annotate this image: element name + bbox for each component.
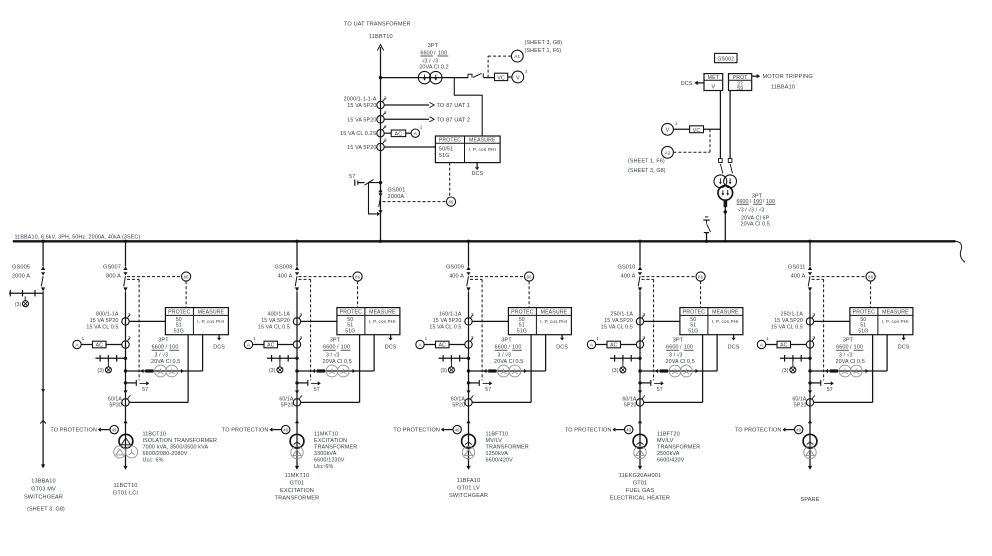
svg-text:11BBT10: 11BBT10 — [369, 34, 393, 40]
svg-text:PROTEC: PROTEC — [439, 138, 461, 144]
wire PROTEC lead to CT60 — [872, 335, 874, 403]
svg-text:V: V — [516, 75, 520, 81]
svg-text:DCS: DCS — [898, 345, 910, 351]
svg-text:FUEL GAS: FUEL GAS — [626, 488, 655, 494]
svg-text:3 / √3: 3 / √3 — [839, 352, 853, 359]
svg-text:20VA Cl 0,5: 20VA Cl 0,5 — [151, 359, 180, 365]
svg-text:3PT: 3PT — [843, 338, 854, 344]
transformer primary winding — [290, 434, 304, 448]
wire CT60 to PROTEC lead — [301, 401, 360, 403]
label 3PT GS002 — [737, 194, 776, 228]
wire AC to ammeter — [406, 132, 411, 134]
wire dashed 86 to PROTEC — [700, 281, 702, 307]
label 3PT values — [494, 338, 523, 365]
svg-text:GS007: GS007 — [103, 264, 121, 270]
disconnector GS007 — [123, 266, 127, 270]
svg-text:3: 3 — [299, 335, 302, 340]
svg-text:EXCITATION: EXCITATION — [314, 438, 347, 444]
svg-text:3: 3 — [471, 335, 474, 340]
svg-text:VC: VC — [497, 76, 505, 82]
svg-text:GS011: GS011 — [788, 264, 806, 270]
busbar 11BBA10 6.6kV — [13, 240, 956, 242]
wire MEASURE lead to VT — [373, 335, 375, 371]
svg-text:15 VA CL 0.5: 15 VA CL 0.5 — [429, 325, 461, 331]
current transformer 60/1A — [465, 399, 472, 406]
transducer AC box — [436, 341, 450, 348]
svg-text:6600/2080-2080V: 6600/2080-2080V — [143, 451, 188, 457]
switch contact on VT branch — [468, 73, 495, 77]
svg-text:SWITCHGEAR: SWITCHGEAR — [449, 493, 488, 499]
svg-text:15 VA 5P20: 15 VA 5P20 — [774, 318, 803, 324]
transducer AC box — [777, 341, 791, 348]
wire GS007 drop — [125, 241, 127, 266]
fuse VT — [146, 370, 153, 372]
svg-text:1: 1 — [675, 120, 678, 126]
transformer secondary winding — [804, 446, 816, 458]
wire arrow TO 87 UAT 2 — [384, 117, 470, 124]
lamp symbol 3-phase — [441, 367, 455, 374]
wire main conductor — [809, 291, 811, 466]
relay 49 thermal — [453, 425, 461, 433]
wire A to AC — [81, 344, 92, 346]
transformer secondary winding — [291, 446, 303, 458]
wire MET lead down — [719, 91, 721, 159]
svg-text:6600: 6600 — [152, 345, 164, 351]
earthing switch 57 — [297, 380, 321, 393]
fuse GS002 — [724, 201, 727, 207]
relay 86 lockout — [182, 272, 191, 281]
svg-text:3: 3 — [384, 124, 387, 129]
svg-text:TO PROTECTION: TO PROTECTION — [393, 428, 440, 434]
svg-text:TRANSFORMER: TRANSFORMER — [275, 495, 320, 501]
svg-text:TO 87 UAT 2: TO 87 UAT 2 — [437, 117, 471, 123]
wire MEASURE lead to VT — [716, 335, 718, 371]
current transformer TO 87 UAT 1 — [377, 96, 387, 109]
svg-text:I, P, cos PHI: I, P, cos PHI — [468, 147, 496, 153]
wire to protection 49 — [565, 428, 625, 434]
wire dashed interlock branch — [642, 278, 654, 280]
wire motor tripping arrow — [752, 74, 761, 78]
svg-text:20VA Cl 0,5: 20VA Cl 0,5 — [741, 221, 770, 227]
svg-text:20VA Cl 0,5: 20VA Cl 0,5 — [666, 359, 695, 365]
svg-text:VC: VC — [693, 128, 701, 134]
svg-text:15 VA 5P20: 15 VA 5P20 — [347, 103, 376, 109]
wire CT to AC converter — [384, 132, 391, 134]
earthing switch at busbar — [703, 217, 710, 241]
wire CT60 to PROTEC lead — [472, 401, 531, 403]
wire to protection 49 — [735, 428, 795, 434]
wire dashed to relay 86 — [127, 276, 181, 278]
wire A to AC — [253, 344, 264, 346]
svg-text:TO PROTECTION: TO PROTECTION — [50, 428, 97, 434]
svg-text:GS001: GS001 — [388, 187, 406, 193]
wire VT branch — [297, 370, 374, 372]
wire CT to PROTEC — [301, 320, 337, 322]
switch GS002 label box — [715, 53, 737, 62]
disconnector GS008 — [295, 266, 299, 270]
label 3PT values — [323, 338, 352, 365]
svg-text:3: 3 — [128, 335, 131, 340]
svg-text:3PT: 3PT — [428, 43, 439, 49]
svg-text:51G: 51G — [517, 329, 527, 335]
label feeder destination — [113, 483, 139, 497]
label 3PT values — [836, 338, 865, 365]
label feeder destination — [449, 478, 488, 499]
svg-text:GT01: GT01 — [290, 480, 304, 486]
svg-text:3: 3 — [299, 312, 302, 317]
svg-text:15 VA 5P20: 15 VA 5P20 — [90, 318, 119, 324]
wire dashed interlock branch — [127, 278, 139, 280]
wire arrow to switchgear — [41, 464, 45, 468]
svg-text:6600: 6600 — [495, 345, 507, 351]
svg-text:100: 100 — [684, 345, 693, 351]
current transformer protection — [636, 312, 645, 325]
svg-text:I, P, cos PHI: I, P, cos PHI — [197, 319, 224, 324]
wire DCS lead top — [472, 163, 484, 177]
svg-text:400/1-1A: 400/1-1A — [268, 312, 291, 318]
wire main conductor — [296, 291, 298, 466]
svg-text:11BBA10: 11BBA10 — [771, 85, 795, 91]
svg-text:3PT: 3PT — [673, 338, 684, 344]
earthing switch 57 — [126, 380, 150, 393]
svg-text:49: 49 — [112, 428, 117, 433]
svg-text:GS008: GS008 — [274, 264, 292, 270]
relay 49 thermal — [282, 425, 290, 433]
wire DCS lead — [385, 335, 397, 351]
svg-text:MEASURE: MEASURE — [369, 310, 396, 316]
svg-text:3: 3 — [812, 312, 815, 317]
svg-text:51G: 51G — [174, 329, 184, 335]
wire MEASURE lead to VT — [886, 335, 888, 371]
wire DCS lead — [556, 335, 568, 351]
wire CT to PROTEC — [384, 146, 435, 148]
relay PROTEC/MEASURE box — [165, 308, 228, 335]
lamp symbol 3-phase — [269, 367, 283, 374]
svg-text:GS009: GS009 — [446, 264, 464, 270]
earthing switch 57 — [810, 380, 834, 393]
wire dashed to relay 86 — [642, 276, 696, 278]
svg-text:100: 100 — [341, 345, 350, 351]
wire arrow to load — [808, 466, 812, 470]
svg-text:(3): (3) — [269, 368, 276, 374]
meter V voltmeter — [662, 123, 674, 135]
svg-text:1: 1 — [766, 336, 769, 341]
svg-text:(3): (3) — [98, 368, 105, 374]
switch drawout contact lower — [466, 390, 470, 393]
svg-text:GT01 LV: GT01 LV — [457, 486, 480, 492]
label 3PT value — [419, 43, 448, 70]
wire PROT lead down — [729, 91, 731, 159]
svg-text:DCS: DCS — [556, 345, 568, 351]
node junction on feeder — [379, 76, 382, 79]
svg-text:5P20: 5P20 — [624, 403, 637, 409]
svg-text:1: 1 — [420, 125, 423, 130]
svg-text:3PT: 3PT — [330, 338, 341, 344]
svg-text:5P20: 5P20 — [452, 403, 465, 409]
wire DCS lead — [213, 335, 225, 351]
switch drawout contact lower — [123, 390, 127, 393]
svg-text:SPARE: SPARE — [800, 497, 819, 503]
svg-text:51G: 51G — [858, 329, 868, 335]
wire GS005 lower — [42, 291, 44, 465]
transducer AC box — [607, 341, 621, 348]
relay 86 lockout — [525, 272, 534, 281]
svg-text:1: 1 — [82, 336, 85, 341]
svg-text:GT01 LCI: GT01 LCI — [113, 490, 139, 496]
label feeder destination — [610, 473, 670, 502]
disconnector GS010 — [638, 266, 642, 270]
svg-text:57: 57 — [485, 387, 491, 393]
wire VT branch horizontal — [381, 77, 469, 79]
svg-text:86: 86 — [527, 275, 532, 280]
wire dashed 86 to PROTEC — [185, 281, 187, 307]
svg-text:51G: 51G — [345, 329, 355, 335]
svg-text:60/1A: 60/1A — [451, 396, 466, 402]
svg-text:MEASURE: MEASURE — [712, 310, 739, 316]
svg-text:15 VA 5P20: 15 VA 5P20 — [604, 318, 633, 324]
svg-text:PROTEC: PROTEC — [340, 310, 362, 316]
wire DCS lead — [898, 335, 910, 351]
svg-text:PROT: PROT — [733, 75, 749, 81]
node busbar junction GS005 — [41, 240, 44, 243]
wire main conductor — [468, 291, 470, 466]
svg-text:100: 100 — [169, 345, 178, 351]
svg-text:1: 1 — [253, 336, 256, 341]
svg-text:TO PROTECTION: TO PROTECTION — [735, 428, 782, 434]
svg-text:15 VA 5P20: 15 VA 5P20 — [433, 318, 462, 324]
node junctions on conductor — [808, 357, 811, 360]
wire arrowheads VT branch — [141, 369, 144, 373]
svg-text:2000 A: 2000 A — [12, 274, 30, 280]
switch drawout contact — [719, 159, 723, 174]
svg-text:3PT: 3PT — [158, 338, 169, 344]
transformer 3-winding primary — [119, 434, 133, 448]
svg-text:57: 57 — [827, 387, 833, 393]
svg-text:6600/420V: 6600/420V — [657, 458, 685, 464]
wire PROTEC lead to CT60 — [530, 335, 532, 403]
svg-text:51G: 51G — [688, 329, 698, 335]
svg-text:11BFA10: 11BFA10 — [457, 478, 480, 484]
wire arrow to load — [123, 466, 127, 470]
svg-text:PROTEC: PROTEC — [853, 310, 875, 316]
meter V1 voltmeter top — [512, 71, 524, 83]
wire CT to PROTEC — [814, 320, 850, 322]
lamp symbol 3-phase — [98, 367, 112, 374]
current transformer TO 87 UAT 2 — [377, 110, 387, 123]
wire arrow to load — [466, 466, 470, 470]
svg-text:AC: AC — [395, 131, 403, 137]
svg-text:(SHEET 1, F6): (SHEET 1, F6) — [525, 48, 562, 54]
switch drawout contact above transformer — [638, 420, 642, 423]
svg-text:6600: 6600 — [420, 51, 432, 57]
wire CT to PROTEC — [129, 320, 165, 322]
node busbar junction GS011 — [808, 240, 811, 243]
svg-text:1: 1 — [425, 336, 428, 341]
svg-text:250/1-1A: 250/1-1A — [781, 312, 804, 318]
svg-text:SWITCHGEAR: SWITCHGEAR — [24, 494, 63, 500]
svg-text:59: 59 — [737, 86, 743, 92]
svg-text:TRANSFORMER: TRANSFORMER — [657, 445, 700, 451]
wire dashed 86 to PROTEC — [528, 281, 530, 307]
wire to protection 49 — [393, 428, 453, 434]
svg-text:57: 57 — [142, 387, 148, 393]
earthing switch 3-phase — [96, 355, 126, 367]
svg-text:(3): (3) — [612, 368, 619, 374]
voltage transformer 3PT pair — [669, 365, 692, 377]
transformer primary winding — [462, 434, 476, 448]
svg-text:DCS: DCS — [385, 345, 397, 351]
svg-text:100: 100 — [854, 345, 863, 351]
disconnector GS009 — [466, 266, 470, 270]
svg-text:(3): (3) — [441, 368, 448, 374]
earthing switch 3-phase — [439, 355, 469, 367]
earthing switch 3-phase GS005 — [9, 290, 43, 301]
voltage transformer 3PT pair — [839, 365, 862, 377]
relay 86 lockout — [866, 272, 875, 281]
svg-text:100: 100 — [512, 345, 521, 351]
svg-text:(3): (3) — [15, 302, 22, 308]
relay 49 thermal — [795, 425, 803, 433]
svg-text:6600: 6600 — [836, 345, 848, 351]
switch drawout contact lower — [638, 390, 642, 393]
svg-text:400 A: 400 A — [449, 273, 464, 279]
svg-text:MV/LV: MV/LV — [657, 438, 674, 444]
wire GS010 drop — [639, 241, 641, 266]
current transformer metering — [806, 335, 815, 348]
svg-text:GS010: GS010 — [617, 264, 635, 270]
wire dashed to A2 — [709, 129, 711, 152]
switch drawout contact pair GS005 — [40, 389, 46, 423]
relay MET box — [704, 74, 723, 91]
wire dashed GS001 to 86 — [383, 201, 447, 203]
svg-text:13BBA10: 13BBA10 — [31, 478, 55, 484]
label transformer data — [143, 432, 218, 464]
svg-text:AC: AC — [96, 343, 104, 349]
svg-text:Ucc: 6%: Ucc: 6% — [143, 458, 164, 464]
svg-text:60/1A: 60/1A — [622, 396, 637, 402]
svg-text:PROTEC: PROTEC — [511, 310, 533, 316]
wire CT to PROTEC — [644, 320, 680, 322]
wire VT branch — [126, 370, 203, 372]
label 13BBA10 GT03 MV SWITCHGEAR — [24, 478, 65, 512]
wire dashed 86 to PROTEC — [870, 281, 872, 307]
svg-text:MEASURE: MEASURE — [541, 310, 568, 316]
wire CT60 to PROTEC lead — [129, 401, 188, 403]
wire A to AC — [596, 344, 607, 346]
transducer AC box — [93, 341, 107, 348]
wire VT branch — [469, 370, 546, 372]
svg-text:TO UAT TRANSFORMER: TO UAT TRANSFORMER — [344, 22, 411, 28]
disconnector GS011 — [808, 266, 812, 270]
wire PROTEC lead to CT60 — [187, 335, 189, 403]
svg-text:400 A: 400 A — [621, 273, 636, 279]
svg-text:DCS: DCS — [681, 81, 693, 87]
wire 11BBT10 feeder vertical — [377, 45, 383, 242]
svg-text:11BFT20: 11BFT20 — [657, 432, 680, 438]
wire A to AC — [424, 344, 435, 346]
svg-text:6600/420V: 6600/420V — [486, 458, 514, 464]
current transformer metering core — [377, 124, 387, 137]
svg-text:86: 86 — [184, 275, 189, 280]
wire DCS arrow left — [681, 81, 704, 87]
svg-text:1250kVA: 1250kVA — [486, 451, 509, 457]
transformer 3-winding secondaries — [114, 446, 138, 458]
svg-text:MET: MET — [708, 75, 720, 81]
svg-text:DCS: DCS — [472, 171, 484, 177]
earthing switch 57 — [469, 380, 493, 393]
svg-text:15 VA CL 0.2S: 15 VA CL 0.2S — [340, 131, 377, 137]
wire PROTEC lead to CT60 — [359, 335, 361, 403]
svg-text:2000A: 2000A — [388, 194, 405, 200]
svg-text:MOTOR TRIPPING: MOTOR TRIPPING — [763, 74, 813, 80]
wire VT branch — [640, 370, 717, 372]
svg-text:TRANSFORMER: TRANSFORMER — [486, 445, 529, 451]
svg-text:11BCT10: 11BCT10 — [143, 432, 166, 438]
svg-text:2500kVA: 2500kVA — [657, 451, 680, 457]
wire V to VC to bus — [673, 128, 689, 130]
svg-text:1: 1 — [596, 336, 599, 341]
disconnector GS005 — [41, 266, 45, 270]
node junctions on conductor — [638, 357, 641, 360]
svg-text:50/51: 50/51 — [439, 147, 453, 153]
svg-text:15 VA CL 0.5: 15 VA CL 0.5 — [601, 325, 633, 331]
svg-text:A2: A2 — [664, 150, 670, 156]
svg-text:60/1A: 60/1A — [279, 396, 294, 402]
busbar continuation squiggle — [956, 241, 966, 262]
svg-text:400 A: 400 A — [278, 273, 293, 279]
svg-text:MEASURE: MEASURE — [469, 138, 496, 144]
svg-text:86: 86 — [698, 275, 703, 280]
current transformer 60/1A — [806, 399, 813, 406]
wire dashed PROTEC to 86 — [449, 163, 451, 197]
node busbar junction GS002 VT — [724, 240, 727, 243]
svg-text:6600/1230V: 6600/1230V — [314, 458, 345, 464]
relay PROTEC/MEASURE box top — [435, 136, 500, 163]
wire dashed interlock branch — [470, 278, 482, 280]
meter A ammeter — [757, 340, 765, 348]
svg-text:5P20: 5P20 — [281, 403, 294, 409]
svg-text:5P20: 5P20 — [109, 403, 122, 409]
svg-text:3 / √3: 3 / √3 — [498, 352, 512, 359]
wire arrowheads VT branch — [484, 369, 487, 373]
indicator A1 — [511, 50, 523, 62]
svg-text:15 VA 5P20: 15 VA 5P20 — [347, 145, 376, 151]
current transformer 60/1A — [293, 399, 300, 406]
svg-text:86: 86 — [868, 275, 873, 280]
svg-text:I, P, cos PHI: I, P, cos PHI — [369, 319, 396, 324]
current transformer protection core — [377, 138, 387, 151]
svg-text:GS005: GS005 — [12, 264, 30, 270]
svg-text:11BBA10, 6.6kV, 3PH, 50Hz, 200: 11BBA10, 6.6kV, 3PH, 50Hz, 2000A, 40kA (… — [15, 235, 141, 241]
transducer AC box — [391, 130, 406, 137]
wire arrow to load — [295, 466, 299, 470]
wire AC to CT — [791, 344, 807, 346]
relay PROT box 27/59 — [729, 74, 752, 92]
svg-text:MV/LV: MV/LV — [486, 438, 503, 444]
svg-text:11EKG20AH001: 11EKG20AH001 — [619, 473, 661, 479]
svg-text:ISOLATION TRANSFORMER: ISOLATION TRANSFORMER — [143, 438, 218, 444]
meter A1 ammeter — [411, 129, 419, 137]
node busbar junction GS009 — [467, 240, 470, 243]
svg-text:57: 57 — [657, 387, 663, 393]
svg-text:I, P, cos PHI: I, P, cos PHI — [882, 319, 909, 324]
svg-text:MEASURE: MEASURE — [198, 310, 225, 316]
current transformer metering — [465, 335, 474, 348]
svg-text:11MKT10: 11MKT10 — [314, 432, 338, 438]
svg-text:51G: 51G — [439, 153, 450, 159]
svg-text:EXCITATION: EXCITATION — [280, 488, 314, 494]
fuse VT — [660, 370, 667, 372]
